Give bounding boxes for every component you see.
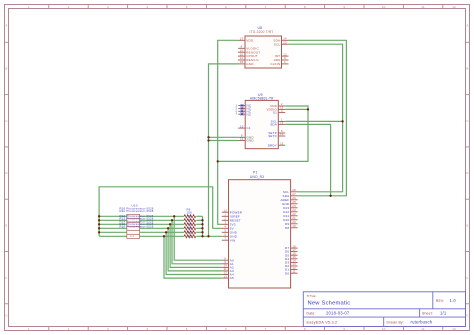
U8 pin 11 RESV-G bbox=[238, 59, 245, 61]
gyroscope U8 ITG-3200 bbox=[238, 26, 289, 68]
wire row6 to P1.A5 bbox=[164, 236, 222, 278]
svg-text:C1: C1 bbox=[247, 126, 251, 130]
svg-text:S1: S1 bbox=[273, 111, 277, 115]
U8 pin 10 REGOUT bbox=[238, 51, 245, 53]
U8 pin 24 SDA bbox=[282, 39, 289, 41]
wire row4 resistor to GND bus bbox=[196, 227, 202, 229]
junction 5V bus bbox=[98, 231, 100, 233]
svg-text:1: 1 bbox=[224, 213, 226, 217]
P1 pin 9 A1 bbox=[222, 263, 229, 265]
wire SCL net U8.SCL to P1.SCL bbox=[289, 44, 343, 192]
svg-text:UNO_R3: UNO_R3 bbox=[250, 175, 264, 179]
svg-text:10: 10 bbox=[240, 48, 244, 52]
U9 pin 11 GND bbox=[238, 140, 245, 142]
svg-text:GND: GND bbox=[246, 62, 254, 66]
svg-text:11: 11 bbox=[240, 137, 243, 141]
svg-text:26: 26 bbox=[292, 196, 296, 200]
svg-text:27: 27 bbox=[292, 192, 296, 196]
svg-text:10K: 10K bbox=[187, 211, 193, 215]
junction row6 riser bbox=[163, 235, 165, 237]
svg-text:4: 4 bbox=[146, 327, 148, 331]
svg-text:12: 12 bbox=[280, 132, 284, 136]
P1 pin 7 VIN bbox=[222, 239, 229, 241]
wire row2 resistor to GND bus bbox=[196, 219, 202, 221]
svg-text:9: 9 bbox=[343, 5, 345, 9]
wire U9.GND2 branch bbox=[209, 140, 239, 142]
svg-text:11: 11 bbox=[224, 267, 227, 271]
junction row3 riser bbox=[169, 223, 171, 225]
resistor R6 bbox=[184, 215, 196, 218]
wire row1 resistor to GND bus bbox=[196, 215, 202, 217]
wire row2 5V bus to photoresistor bbox=[99, 219, 127, 221]
U8 pin 8 VLOGIC bbox=[238, 47, 245, 49]
svg-text:8: 8 bbox=[224, 256, 226, 260]
wire row2 to P1.A1 bbox=[172, 220, 222, 263]
svg-text:8: 8 bbox=[241, 45, 243, 49]
U9 pin 1 SCL bbox=[278, 120, 285, 122]
svg-text:3: 3 bbox=[107, 327, 109, 331]
svg-text:F: F bbox=[466, 276, 468, 280]
svg-text:9: 9 bbox=[284, 56, 286, 60]
connector P1 UNO_R3 Arduino header bbox=[222, 171, 298, 288]
svg-text:19: 19 bbox=[292, 224, 296, 228]
junction row5 riser bbox=[165, 231, 167, 233]
wire U9.SDA branch bbox=[285, 124, 330, 195]
svg-text:13: 13 bbox=[292, 262, 296, 266]
wire row4 5V bus to photoresistor bbox=[99, 227, 127, 229]
junction GND/U9.GND1 bbox=[207, 136, 209, 138]
svg-text:2: 2 bbox=[224, 217, 226, 221]
svg-text:2: 2 bbox=[68, 327, 70, 331]
wire row3 to P1.A2 bbox=[170, 224, 222, 267]
U9 pin 16 SDA bbox=[278, 123, 285, 125]
svg-text:12: 12 bbox=[224, 271, 228, 275]
svg-text:SDA: SDA bbox=[270, 123, 277, 127]
wire U9.SCL branch bbox=[285, 120, 342, 122]
svg-text:1: 1 bbox=[28, 327, 30, 331]
junction GND bus bbox=[201, 227, 203, 229]
svg-text:E: E bbox=[5, 223, 7, 227]
svg-text:7: 7 bbox=[265, 327, 267, 331]
svg-text:G: G bbox=[466, 313, 469, 317]
U9 pin 8 SETP bbox=[278, 132, 285, 134]
svg-text:SETC: SETC bbox=[268, 134, 277, 138]
svg-text:R6: R6 bbox=[188, 215, 192, 219]
wire row5 5V bus to photoresistor bbox=[99, 231, 127, 233]
svg-text:GND: GND bbox=[247, 139, 255, 143]
svg-text:10: 10 bbox=[224, 264, 228, 268]
svg-text:15: 15 bbox=[280, 141, 284, 145]
svg-text:17: 17 bbox=[292, 248, 296, 252]
junction GND bus bbox=[201, 235, 203, 237]
svg-text:23: 23 bbox=[283, 40, 287, 44]
wire row6 photoresistor to resistor bbox=[140, 235, 185, 237]
junction GND bus bbox=[201, 231, 203, 233]
wire row5 photoresistor to resistor bbox=[140, 231, 185, 233]
U8 pin 9 AD0 bbox=[282, 59, 289, 61]
svg-text:B: B bbox=[466, 67, 468, 71]
P1 pin 26 AREF bbox=[291, 199, 298, 201]
svg-text:15: 15 bbox=[292, 255, 296, 259]
P1 pin 15 D4 bbox=[291, 258, 298, 260]
svg-text:16: 16 bbox=[280, 121, 284, 125]
svg-text:Photoresistor-5528: Photoresistor-5528 bbox=[126, 209, 153, 213]
U9 pin 7 NC bbox=[238, 113, 245, 115]
svg-text:Date:: Date: bbox=[307, 312, 316, 316]
P1 pin 12 A4 bbox=[222, 274, 229, 276]
wire row1 photoresistor to resistor bbox=[140, 215, 185, 217]
U9 pin 5 NC bbox=[238, 107, 245, 109]
svg-text:7: 7 bbox=[224, 236, 226, 240]
svg-text:D0: D0 bbox=[285, 271, 289, 275]
svg-text:1/1: 1/1 bbox=[440, 311, 447, 316]
junction GND bus bbox=[201, 223, 203, 225]
junction row2 riser bbox=[171, 219, 173, 221]
U9 pin 2 VDD bbox=[278, 105, 285, 107]
junction GND row bbox=[207, 235, 209, 237]
P1 pin 18 D7 bbox=[291, 247, 298, 249]
P1 pin 11 D0 bbox=[291, 272, 298, 274]
svg-text:12: 12 bbox=[452, 5, 456, 9]
U9 pin 12 SETC bbox=[278, 135, 285, 137]
svg-text:2018-03-07: 2018-03-07 bbox=[326, 311, 350, 316]
svg-text:x x: x x bbox=[130, 235, 134, 238]
wire resistor GND bus bbox=[202, 216, 204, 236]
resistor R9 bbox=[184, 227, 196, 230]
svg-text:VDD: VDD bbox=[246, 38, 254, 42]
svg-text:4: 4 bbox=[146, 5, 148, 9]
wire SDA net U8.SDA to P1.SDA bbox=[289, 40, 347, 196]
svg-text:Drawn By:: Drawn By: bbox=[387, 320, 404, 324]
svg-text:A: A bbox=[5, 24, 7, 28]
svg-text:13: 13 bbox=[224, 274, 228, 278]
svg-text:A5: A5 bbox=[230, 276, 234, 280]
U8 pin 18 GND bbox=[238, 63, 245, 65]
P1 pin 2 RESET bbox=[222, 219, 229, 221]
svg-text:B: B bbox=[5, 67, 7, 71]
P1 pin 6 GND bbox=[222, 235, 229, 237]
svg-text:5: 5 bbox=[224, 229, 226, 233]
junction GND bus bbox=[201, 219, 203, 221]
P1 pin 11 A3 bbox=[222, 270, 229, 272]
P1 pin 12 POWER bbox=[222, 211, 229, 213]
svg-text:3: 3 bbox=[107, 5, 109, 9]
svg-text:SCL: SCL bbox=[274, 42, 281, 46]
svg-text:2: 2 bbox=[281, 102, 283, 106]
P1 pin 27 SDA bbox=[291, 195, 298, 197]
P1 pin 4 5V bbox=[222, 227, 229, 229]
svg-text:10: 10 bbox=[240, 124, 244, 128]
wire row4 photoresistor to resistor bbox=[140, 227, 185, 229]
svg-text:1: 1 bbox=[284, 60, 286, 64]
P1 pin 10 A2 bbox=[222, 266, 229, 268]
resistor R8 bbox=[184, 223, 196, 226]
P1 pin 3 3V3 bbox=[222, 223, 229, 225]
svg-text:4: 4 bbox=[224, 225, 226, 229]
svg-text:ruterbusch: ruterbusch bbox=[411, 319, 433, 324]
svg-text:TITLE:: TITLE: bbox=[307, 294, 317, 298]
wire VDD net U8.VDD to P1.3V3 bbox=[218, 40, 238, 224]
U9 pin 4 S1 bbox=[278, 112, 285, 114]
svg-text:EasyEDA V5.3.2: EasyEDA V5.3.2 bbox=[307, 320, 338, 324]
magnetometer U9 HMC5883L-TR bbox=[236, 93, 286, 149]
P1 pin 13 D2 bbox=[291, 265, 298, 267]
svg-text:A: A bbox=[466, 24, 468, 28]
resistor R7 bbox=[184, 219, 196, 222]
junction row1 riser bbox=[173, 215, 175, 217]
svg-text:6: 6 bbox=[225, 327, 227, 331]
svg-text:20: 20 bbox=[240, 52, 244, 56]
svg-text:18: 18 bbox=[292, 244, 296, 248]
svg-text:12: 12 bbox=[452, 327, 456, 331]
U8 pin 23 SCL bbox=[282, 43, 289, 45]
svg-text:16: 16 bbox=[292, 251, 296, 255]
wire VDD branch to U9.VDD bbox=[218, 106, 308, 161]
junction 5V bus bbox=[98, 223, 100, 225]
P1 pin 16 D5 bbox=[291, 254, 298, 256]
U9 pin 3 NC bbox=[238, 105, 245, 107]
wire GND net from U8.GND bbox=[209, 64, 239, 236]
resistor R10 bbox=[184, 231, 196, 234]
svg-text:21: 21 bbox=[292, 216, 296, 220]
wire row5 to P1.A4 bbox=[166, 232, 222, 274]
U9 pin 15 DRDY bbox=[278, 144, 285, 146]
svg-text:23: 23 bbox=[292, 208, 296, 212]
svg-text:VIN: VIN bbox=[230, 238, 236, 242]
U8 pin 1 CLKIN bbox=[282, 63, 289, 65]
svg-text:6: 6 bbox=[224, 233, 226, 237]
svg-text:28: 28 bbox=[292, 188, 296, 192]
svg-text:ITG-3200 T/RT: ITG-3200 T/RT bbox=[250, 30, 274, 34]
svg-text:12: 12 bbox=[292, 266, 296, 270]
svg-text:11: 11 bbox=[292, 269, 295, 273]
U9 pin 13 VDDIO bbox=[278, 108, 285, 110]
wire U9.VDDIO branch bbox=[285, 108, 308, 110]
svg-text:R11: R11 bbox=[188, 235, 194, 239]
P1 pin 8 A0 bbox=[222, 259, 229, 261]
P1 pin 24 D13 bbox=[291, 207, 298, 209]
svg-text:11: 11 bbox=[240, 56, 243, 60]
svg-text:R11: R11 bbox=[120, 209, 126, 213]
P1 pin 17 D6 bbox=[291, 251, 298, 253]
wire 5V net bus to P1.5V bbox=[99, 187, 222, 237]
svg-text:20: 20 bbox=[292, 220, 296, 224]
U9 pin 6 NC bbox=[238, 110, 245, 112]
svg-text:8: 8 bbox=[304, 5, 306, 9]
svg-text:22: 22 bbox=[292, 212, 296, 216]
wire row4 to P1.A3 bbox=[168, 228, 222, 271]
svg-text:25: 25 bbox=[292, 200, 296, 204]
svg-text:24: 24 bbox=[292, 204, 296, 208]
svg-text:D8: D8 bbox=[285, 226, 289, 230]
svg-text:NC: NC bbox=[247, 112, 252, 116]
U8 pin 20 CPOUT bbox=[238, 55, 245, 57]
P1 pin 19 D8 bbox=[291, 227, 298, 229]
svg-text:11: 11 bbox=[421, 327, 425, 331]
U9 pin 10 C1 bbox=[238, 127, 245, 129]
svg-text:18: 18 bbox=[240, 60, 244, 64]
junction 5V bus bbox=[98, 227, 100, 229]
svg-text:1: 1 bbox=[28, 5, 30, 9]
svg-text:CLKIN: CLKIN bbox=[270, 62, 280, 66]
svg-text:10: 10 bbox=[382, 5, 386, 9]
svg-text:13: 13 bbox=[240, 37, 244, 41]
svg-text:Photoresistor-5528: Photoresistor-5528 bbox=[126, 225, 153, 229]
svg-text:R10: R10 bbox=[188, 231, 194, 235]
P1 pin 1 IOREF bbox=[222, 215, 229, 217]
wire row6 resistor to GND bus bbox=[196, 235, 202, 237]
junction GND/U9.GND2 bbox=[207, 139, 209, 141]
svg-text:R8: R8 bbox=[188, 223, 192, 227]
U9 pin 9 GND bbox=[238, 136, 245, 138]
P1 pin 22 D11 bbox=[291, 215, 298, 217]
P1 pin 13 A5 bbox=[222, 277, 229, 279]
resistor network R6-R11 bbox=[184, 208, 196, 239]
P1 pin 12 D1 bbox=[291, 269, 298, 271]
svg-text:REV:: REV: bbox=[436, 299, 445, 303]
svg-text:24: 24 bbox=[283, 37, 287, 41]
junction row4 riser bbox=[167, 227, 169, 229]
P1 pin 5 GND bbox=[222, 231, 229, 233]
title block bbox=[303, 292, 465, 327]
svg-text:R16: R16 bbox=[120, 225, 126, 229]
svg-text:New Schematic: New Schematic bbox=[308, 300, 351, 306]
wire row1 to P1.A0 bbox=[174, 216, 222, 260]
svg-text:8: 8 bbox=[304, 327, 306, 331]
junction 5V bus bbox=[98, 215, 100, 217]
wire row3 resistor to GND bus bbox=[196, 223, 202, 225]
svg-text:F: F bbox=[5, 276, 7, 280]
P1 pin 14 D3 bbox=[291, 261, 298, 263]
svg-text:2: 2 bbox=[68, 5, 70, 9]
wire GND row to P1.GND bbox=[203, 235, 222, 237]
svg-text:3: 3 bbox=[224, 221, 226, 225]
P1 pin 28 SCL bbox=[291, 191, 298, 193]
svg-text:12: 12 bbox=[224, 208, 228, 212]
wire row2 photoresistor to resistor bbox=[140, 219, 185, 221]
resistor R11 bbox=[184, 235, 196, 238]
svg-text:11: 11 bbox=[421, 5, 425, 9]
junction SDA/U9 bbox=[329, 195, 331, 197]
photoresistor array U10 (6x Photoresistor-5528) bbox=[120, 204, 154, 239]
wire row5 resistor to GND bus bbox=[196, 231, 202, 233]
svg-text:R9: R9 bbox=[188, 227, 192, 231]
P1 pin 20 D9 bbox=[291, 223, 298, 225]
svg-text:R7: R7 bbox=[188, 219, 192, 223]
wire row6 5V bus to photoresistor bbox=[99, 235, 127, 237]
U8 pin 12 INT bbox=[282, 55, 289, 57]
junction VDDIO bbox=[307, 108, 309, 110]
svg-text:G: G bbox=[5, 313, 8, 317]
svg-text:7: 7 bbox=[265, 5, 267, 9]
svg-text:Sheet:: Sheet: bbox=[422, 312, 433, 316]
svg-text:4: 4 bbox=[281, 109, 283, 113]
svg-text:12: 12 bbox=[283, 52, 287, 56]
wire row3 photoresistor to resistor bbox=[140, 223, 185, 225]
svg-text:9: 9 bbox=[343, 327, 345, 331]
wire row1 5V bus to photoresistor bbox=[99, 215, 127, 217]
U8 pin 13 VDD bbox=[238, 39, 245, 41]
junction 5V bus bbox=[98, 219, 100, 221]
junction SCL/U9 bbox=[341, 120, 343, 122]
svg-text:DRDY: DRDY bbox=[268, 143, 277, 147]
svg-text:10: 10 bbox=[382, 327, 386, 331]
svg-text:9: 9 bbox=[224, 260, 226, 264]
P1 pin 25 GND bbox=[291, 203, 298, 205]
svg-text:14: 14 bbox=[292, 259, 296, 263]
svg-text:6: 6 bbox=[225, 5, 227, 9]
P1 pin 23 D12 bbox=[291, 211, 298, 213]
wire row3 5V bus to photoresistor bbox=[99, 223, 127, 225]
P1 pin 21 D10 bbox=[291, 219, 298, 221]
svg-text:5: 5 bbox=[186, 327, 188, 331]
svg-text:E: E bbox=[466, 223, 468, 227]
wire U9.GND1 branch bbox=[209, 136, 239, 138]
junction VDD branch bbox=[217, 160, 219, 162]
svg-text:HMC5883L-TR: HMC5883L-TR bbox=[250, 96, 274, 100]
svg-text:5: 5 bbox=[186, 5, 188, 9]
svg-text:1.0: 1.0 bbox=[450, 298, 457, 303]
